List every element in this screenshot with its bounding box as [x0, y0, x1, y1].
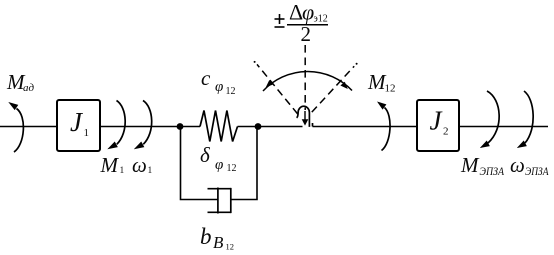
svg-text:c: c: [201, 66, 211, 90]
svg-text:э12: э12: [314, 14, 328, 25]
svg-text:φ: φ: [215, 157, 223, 173]
svg-text:12: 12: [226, 86, 236, 97]
svg-text:2: 2: [443, 126, 449, 138]
svg-text:M: M: [460, 153, 480, 177]
svg-text:b: b: [200, 224, 212, 249]
centerline: right diagonal dashed: [312, 66, 354, 112]
wire: node 2 to backlash: [258, 126, 303, 128]
svg-text:B: B: [213, 233, 224, 252]
backlash center arrow: [302, 111, 309, 126]
wire: left shaft input segment: [0, 126, 57, 128]
wire: output shaft after J2: [459, 126, 548, 128]
backlash range arc with arrowheads: [263, 71, 352, 91]
label delta_phi12: [200, 143, 237, 174]
svg-text:M: M: [100, 153, 120, 177]
label omega1: [132, 153, 153, 177]
label M1: [100, 153, 125, 177]
wire: spring to node 2: [238, 126, 259, 128]
svg-text:12: 12: [385, 83, 396, 95]
centerline: vertical dashed: [304, 45, 306, 110]
svg-text:ω: ω: [510, 153, 525, 177]
svg-text:1: 1: [120, 166, 125, 176]
centerline end dot left: [254, 61, 256, 63]
svg-text:ад: ад: [23, 82, 35, 94]
svg-text:φ: φ: [215, 79, 223, 95]
backlash gap symbol: [297, 106, 313, 127]
centerline end dot right: [356, 63, 358, 65]
svg-text:1: 1: [84, 127, 90, 139]
label M12: [367, 70, 396, 95]
svg-text:12: 12: [227, 163, 237, 174]
svg-text:δ: δ: [200, 143, 211, 167]
node 1 junction dot: [177, 123, 184, 130]
wire: right drop from node 2 to damper: [231, 128, 257, 200]
rotation arrow M_ad: [8, 102, 23, 152]
wire: left drop from node 1 to damper: [181, 128, 218, 200]
svg-text:1: 1: [148, 166, 153, 176]
spring c_phi12: [200, 111, 238, 142]
inertia block J2: [417, 100, 459, 151]
rotation arrow omega_EPZA: [517, 91, 533, 148]
svg-text:12: 12: [226, 242, 235, 252]
label M_ad: [6, 70, 35, 94]
node 2 junction dot: [255, 123, 262, 130]
rotation arrow omega1: [134, 101, 152, 150]
svg-text:φ: φ: [302, 0, 314, 25]
label c_phi12: [201, 66, 236, 97]
rotation arrow M12: [377, 102, 390, 151]
label M_EPZA: [460, 153, 505, 178]
rotation arrow M1: [107, 101, 125, 150]
svg-text:ЭПЗА: ЭПЗА: [525, 164, 549, 178]
wire: shaft J1 to node 1: [100, 126, 180, 128]
wire: backlash to J2: [313, 126, 418, 128]
svg-text:ω: ω: [132, 153, 147, 177]
label omega_EPZA: [510, 153, 549, 178]
damper b_B12: [208, 188, 232, 214]
svg-text:J: J: [70, 107, 84, 137]
centerline: left diagonal dashed: [257, 64, 298, 114]
label b_B12: [200, 224, 234, 252]
svg-text:ЭПЗА: ЭПЗА: [480, 164, 505, 178]
inertia block J1: [57, 100, 100, 151]
rotation arrow M_EPZA: [480, 91, 499, 148]
wire: node 1 to spring: [180, 126, 200, 128]
label plus-minus delta-phi_e12 over 2: [275, 0, 329, 46]
svg-text:J: J: [430, 106, 444, 136]
svg-text:2: 2: [301, 22, 312, 46]
